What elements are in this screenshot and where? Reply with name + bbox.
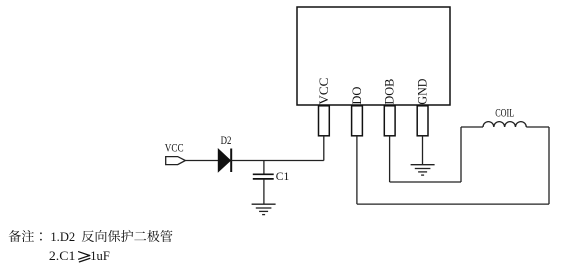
svg-text:2.C1: 2.C1 — [49, 248, 76, 263]
wire coil top left segment — [461, 126, 483, 128]
IC U1 body — [297, 7, 450, 105]
svg-text:DOB: DOB — [382, 78, 397, 104]
svg-text:VCC: VCC — [316, 78, 331, 105]
wire D2 cathode to VCC pin, junction at C1 — [231, 160, 324, 162]
note line 1: 备注：1.D2 反向保护二极管 — [9, 230, 42, 242]
inductor COIL arcs — [483, 122, 526, 127]
wire DO pin down — [356, 136, 358, 204]
pin box DO — [352, 106, 363, 136]
wire coil top right segment — [526, 126, 549, 128]
svg-text:D2: D2 — [221, 133, 232, 147]
wire DO bottom horizontal — [357, 203, 549, 205]
svg-text:VCC: VCC — [165, 141, 184, 155]
diode D2 cathode bar — [230, 149, 232, 173]
svg-text:1.D2: 1.D2 — [50, 229, 75, 244]
pin box VCC — [319, 106, 330, 136]
wire VCC pin drop — [323, 136, 325, 161]
svg-text:COIL: COIL — [495, 106, 514, 120]
svg-text:1uF: 1uF — [90, 248, 110, 263]
VCC input connector — [166, 157, 186, 165]
greater-equal symbol — [79, 252, 90, 262]
wire coil right vertical — [548, 127, 550, 204]
wire GND pin to ground — [422, 136, 424, 165]
diode D2 triangle — [218, 149, 230, 171]
wire DOB horizontal — [390, 181, 461, 183]
wire junction to C1 top plate — [263, 161, 265, 175]
pin box GND — [417, 106, 428, 136]
ground symbol at GND pin — [411, 164, 435, 166]
wire DOB pin down — [389, 136, 391, 182]
capacitor C1 top plate — [253, 173, 274, 175]
svg-text:DO: DO — [349, 87, 364, 105]
capacitor C1 bottom plate — [253, 178, 274, 180]
wire connector to D2 anode — [185, 160, 218, 162]
svg-text:GND: GND — [415, 79, 430, 105]
wire C1 to ground — [263, 179, 265, 204]
pin box DOB — [384, 106, 395, 136]
wire coil left vertical — [460, 127, 462, 182]
svg-text:C1: C1 — [276, 169, 290, 183]
ground symbol below C1 — [252, 203, 276, 205]
